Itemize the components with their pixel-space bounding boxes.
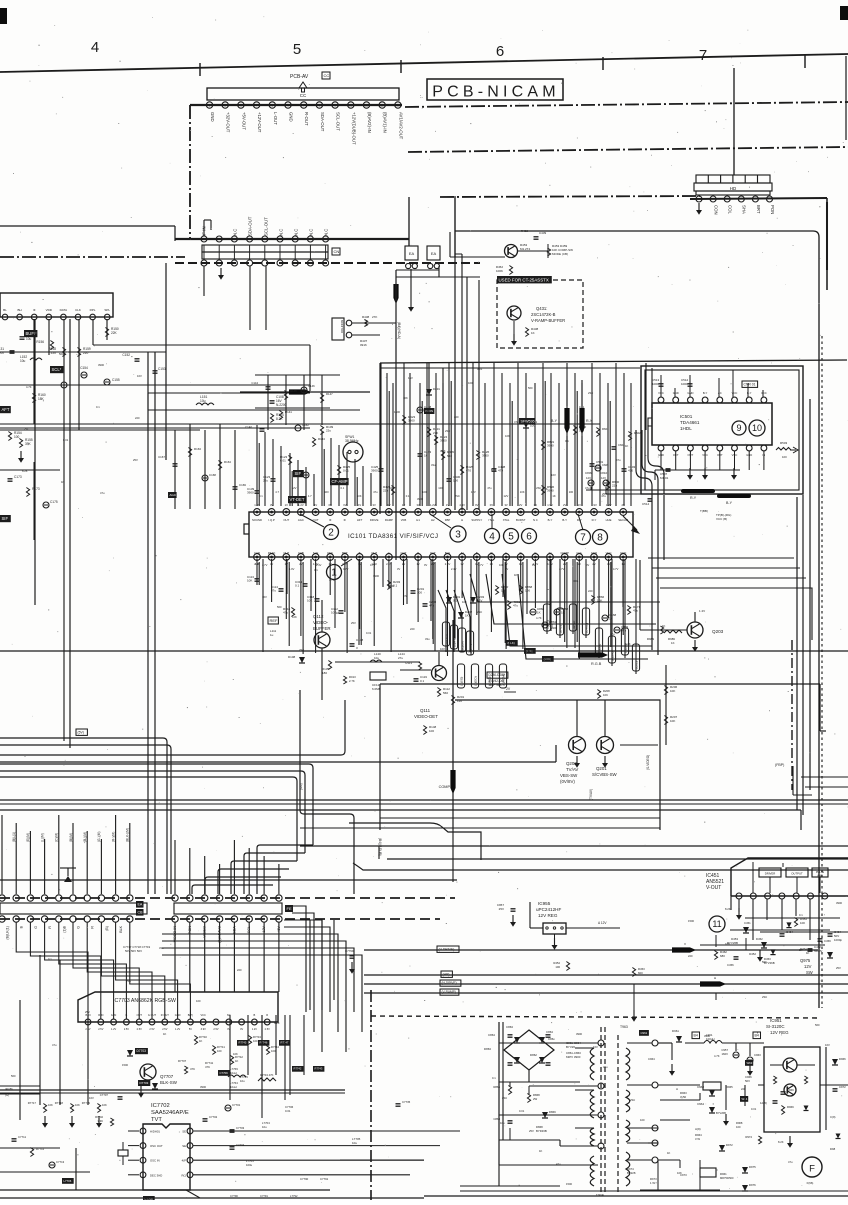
svg-text:1HDL: 1HDL xyxy=(680,426,692,431)
svg-text:220: 220 xyxy=(410,627,415,631)
svg-text:2SC: 2SC xyxy=(24,427,29,431)
wire left v5 xyxy=(33,462,35,540)
winding primary 1 xyxy=(590,1048,594,1080)
tiny value label z0_5 xyxy=(440,647,445,651)
IC501 bottom pin name 2 xyxy=(688,453,694,457)
svg-text:4.7K: 4.7K xyxy=(714,1054,720,1058)
svg-text:BURST: BURST xyxy=(516,518,526,522)
labels q7707 area xyxy=(205,1061,248,1083)
IC101 top pin 4 xyxy=(298,509,305,516)
IC101 bottom pin name R xyxy=(534,551,536,555)
boxlabel BUFF xyxy=(24,330,37,337)
svg-text:OUT: OUT xyxy=(430,551,436,555)
wire V-RAMP xyxy=(364,992,848,994)
tiny label b13 xyxy=(613,567,619,571)
svg-text:R7740: R7740 xyxy=(199,1035,207,1039)
svg-text:1000p: 1000p xyxy=(834,938,842,942)
svg-text:10K: 10K xyxy=(247,579,252,583)
svg-text:SCL*: SCL* xyxy=(52,367,62,372)
IC7703 pin 15 xyxy=(264,1019,270,1031)
net label +12V-OUT xyxy=(257,112,262,133)
IC101 bottom pin name VCC xyxy=(606,551,612,555)
wire IC101 bottom drop x599 xyxy=(598,559,600,590)
svg-text:820: 820 xyxy=(638,971,643,975)
wire IC101 top feed x616 xyxy=(615,363,617,506)
svg-text:A(9): A(9) xyxy=(695,1127,701,1131)
IC101 bottom voltage 11 xyxy=(416,562,419,566)
wire circled1 tail xyxy=(341,559,352,566)
svg-text:C155: C155 xyxy=(112,378,120,382)
svg-text:R163: R163 xyxy=(194,447,201,451)
connector FE row1 pin 6 xyxy=(246,895,252,901)
wire Q112 collector xyxy=(321,600,323,632)
wire IC101 bottom drop x404 xyxy=(403,559,405,605)
capacitor C603 xyxy=(622,465,636,473)
wire IC101 top feed x567 xyxy=(566,363,568,506)
svg-text:220: 220 xyxy=(688,954,693,958)
wire fbp corners xyxy=(793,766,848,795)
net label2 (1)GO) xyxy=(471,664,478,688)
svg-text:47u: 47u xyxy=(788,1160,793,1164)
IC501 bottom pin 6 xyxy=(732,445,738,451)
svg-text:(L)(M): (L)(M) xyxy=(40,833,44,842)
capacitor C861 xyxy=(542,620,557,628)
net label bottom (1)V1/AV2 xyxy=(218,926,222,943)
resistor R160 xyxy=(32,393,45,403)
labels near IC501 bot xyxy=(700,509,731,521)
IC7703 pin 3 xyxy=(111,1019,117,1031)
wire IC101 top feed x443 xyxy=(442,383,444,506)
svg-text:12V REG: 12V REG xyxy=(770,1030,789,1035)
svg-text:R7741: R7741 xyxy=(217,1045,225,1049)
circled 8 xyxy=(593,530,608,545)
transformer left pin y1086 xyxy=(598,1083,604,1089)
wire ic451 outline top xyxy=(730,896,732,910)
IC7702 pin name r0 xyxy=(182,1130,186,1134)
wire IC101 top feed x494 xyxy=(493,363,495,506)
ruler tick xyxy=(400,60,402,73)
connector CC pin 11 xyxy=(363,102,369,108)
IC501 top pin name 1 xyxy=(673,391,679,395)
wire feed x220 xyxy=(219,424,221,509)
svg-text:12V: 12V xyxy=(471,490,476,494)
boxlabel E4B tag xyxy=(524,648,536,654)
svg-text:22u: 22u xyxy=(263,479,268,483)
IC101 bottom pin name COL xyxy=(576,551,582,555)
wire IC101 top feed x355 xyxy=(355,459,357,506)
svg-text:2.5V: 2.5V xyxy=(98,1028,103,1031)
wire v652b xyxy=(651,368,653,424)
svg-text:B-Y: B-Y xyxy=(726,501,733,505)
wire staircase 3 xyxy=(218,869,289,894)
wire right v803 xyxy=(802,495,804,815)
capacitor C868b xyxy=(493,1117,512,1125)
IC7702 pin name l2 xyxy=(150,1159,160,1163)
svg-text:C514: C514 xyxy=(642,502,650,506)
svg-text:FBP: FBP xyxy=(445,518,451,522)
circled 11 xyxy=(709,916,725,932)
IC101 top pin 25 xyxy=(605,509,612,516)
wire IC101 top feed x387 xyxy=(387,373,389,506)
IC101 pin name SUPPLY xyxy=(471,518,482,522)
IC951 parts xyxy=(770,1065,815,1111)
svg-text:3: 3 xyxy=(455,530,461,541)
svg-text:0.1: 0.1 xyxy=(341,486,345,490)
IC101 top voltage 19 xyxy=(534,503,537,507)
tiny value label z4_3 xyxy=(163,1032,166,1036)
circled 5 xyxy=(504,529,519,544)
IC7702 pin name l0 xyxy=(150,1130,160,1134)
connector FE row1 pin 1 xyxy=(172,895,178,901)
wire IC101 top feed x449 xyxy=(449,363,451,506)
connector CC pin 7 xyxy=(301,102,307,108)
net label +12V(DUB)-OUT xyxy=(351,112,356,145)
resistor R861 xyxy=(507,600,520,610)
svg-text:C7701: C7701 xyxy=(232,1103,241,1107)
svg-text:CLK: CLK xyxy=(75,308,81,312)
svg-text:4.7V: 4.7V xyxy=(370,563,376,567)
wire staircase 2 xyxy=(231,861,297,894)
net label GND xyxy=(210,112,215,122)
connector FE row2 pin 7 xyxy=(261,916,267,922)
wire c809 link xyxy=(586,487,656,494)
svg-text:47u: 47u xyxy=(283,611,288,615)
IC7703 pin 14 xyxy=(252,1019,258,1031)
svg-text:VCC: VCC xyxy=(200,1013,206,1017)
connector CN bottom pin 1 xyxy=(201,260,207,266)
wire bottom mid stub xyxy=(340,1159,424,1161)
ruler tick xyxy=(602,57,604,70)
tuner pin VDD xyxy=(46,308,53,320)
net label CON xyxy=(714,205,719,215)
resistor R134 xyxy=(270,413,283,423)
tiny value label z5_7 xyxy=(799,913,803,917)
wire IC101 top feed x381 xyxy=(380,363,382,506)
wire IC101 top feed x518 xyxy=(517,363,519,506)
transformer right pin y1085 xyxy=(652,1082,658,1088)
wire IC101 top feed x436 xyxy=(435,373,437,506)
resistor R164 xyxy=(218,460,231,470)
resistor R155 xyxy=(19,438,32,448)
net label bottom R xyxy=(91,926,95,929)
tiny value label z0_14 xyxy=(388,584,394,588)
IF thick arrow xyxy=(289,389,311,394)
svg-text:CC: CC xyxy=(300,93,307,98)
resistor R866 xyxy=(591,595,604,605)
connector EA2 row1 pin 3 xyxy=(27,895,33,901)
tiny value label z3_4 xyxy=(667,1151,670,1155)
wire IC501 right resistor xyxy=(776,441,798,459)
boxlabel BLK tag xyxy=(506,640,518,646)
bridge labels xyxy=(484,1025,555,1057)
svg-text:C963: C963 xyxy=(754,1053,761,1057)
wire ic451 mesh h3 xyxy=(760,931,848,933)
IC101 bottom pin 14 xyxy=(444,554,451,561)
transformer right pin y1160 xyxy=(652,1157,658,1163)
tiny value label z3_17 xyxy=(788,1160,793,1164)
resistor R7711 xyxy=(30,1147,44,1157)
IC101 bottom pin 22 xyxy=(561,554,568,561)
svg-text:10K: 10K xyxy=(670,689,675,693)
connector CN top pin 2 xyxy=(216,236,222,242)
svg-text:3900: 3900 xyxy=(551,626,557,630)
inductor L151 xyxy=(196,395,214,405)
wire IC101 bottom drop x389 xyxy=(389,559,391,652)
IC7703 pin name B xyxy=(254,1013,256,1017)
svg-text:47u: 47u xyxy=(100,491,105,495)
resistor R860 xyxy=(495,585,508,595)
labels L7705 xyxy=(352,1137,361,1145)
tiny value label z3_0 xyxy=(519,1109,525,1113)
label H-DRIVE xyxy=(440,980,461,986)
IC7703 body xyxy=(78,992,278,1022)
tiny label a1 xyxy=(275,490,279,494)
svg-text:16V: 16V xyxy=(137,374,142,378)
crystal X7701 xyxy=(118,1142,128,1165)
tiny value label z2_2 xyxy=(100,491,105,495)
svg-text:EA: EA xyxy=(138,903,143,907)
resistor R530 xyxy=(573,425,586,435)
wire H-DRIVE xyxy=(364,983,848,985)
capacitor C152 xyxy=(122,353,139,361)
svg-text:AV1/AV2-OUT: AV1/AV2-OUT xyxy=(398,112,403,140)
wire circled4 tail xyxy=(491,514,493,529)
wire 7703 drop 4 xyxy=(303,1015,305,1075)
tiny value label z2_5 xyxy=(61,480,64,484)
svg-text:1K: 1K xyxy=(552,494,555,498)
svg-text:50V 50V 50V: 50V 50V 50V xyxy=(125,949,142,953)
diode D869 xyxy=(542,1110,556,1118)
IC501 top pin 7 xyxy=(746,397,752,403)
tiny label a0 xyxy=(259,494,263,498)
connector HD pin 4 xyxy=(738,196,744,202)
wire R206 v xyxy=(620,665,666,745)
svg-text:1: 1 xyxy=(331,568,337,579)
enclosure big box top xyxy=(455,231,819,1008)
resistor R429 xyxy=(441,450,454,460)
tiny value label z5_4 xyxy=(688,954,693,958)
capacitor C108 xyxy=(270,395,287,407)
tiny value label z3_9 xyxy=(492,1076,496,1080)
svg-text:USED FOR CT-25ASSTX: USED FOR CT-25ASSTX xyxy=(499,277,549,282)
svg-text:VIDEO-: VIDEO- xyxy=(313,620,329,625)
svg-text:38.9MHz: 38.9MHz xyxy=(345,439,359,443)
tiny label b8 xyxy=(478,563,484,567)
svg-text:(C)BK/: (C)BK/ xyxy=(461,641,465,650)
net label +5V-OUT xyxy=(241,112,246,130)
connector EA box xyxy=(427,246,440,269)
IC7703 pin 10 xyxy=(200,1019,206,1031)
IC7702 body xyxy=(143,1124,190,1190)
tiny value label z1_19 xyxy=(616,458,621,462)
tiny label a12 xyxy=(455,494,460,498)
IC7703 pin name B xyxy=(126,1013,128,1017)
net label bottom SDA xyxy=(232,925,236,933)
net label bottom (B)LK(1) xyxy=(6,926,10,940)
capacitor C156 xyxy=(61,382,67,388)
labels misc ps2 xyxy=(740,1075,752,1102)
net label N.C xyxy=(233,229,238,236)
diode D963 xyxy=(697,1085,715,1096)
IC101 bottom pin 5 xyxy=(312,554,319,561)
resistor R868 xyxy=(519,585,532,595)
svg-text:3y50: 3y50 xyxy=(680,1095,687,1099)
wire bus y755 xyxy=(0,700,345,755)
wire IC101 top feed x526 xyxy=(525,373,527,506)
wire tuner drop IF xyxy=(33,319,35,424)
svg-text:1.2V: 1.2V xyxy=(111,1028,116,1031)
transistor Q203 xyxy=(687,622,703,638)
IC7703 pin name OUT xyxy=(136,1013,142,1017)
svg-text:IC951: IC951 xyxy=(770,1018,782,1023)
svg-text:A: A xyxy=(676,1087,678,1091)
svg-text:10u: 10u xyxy=(200,399,206,403)
diode D964 xyxy=(697,1102,726,1115)
wire drop R5 xyxy=(248,848,250,894)
wire left h5 xyxy=(0,469,60,471)
svg-text:3900: 3900 xyxy=(836,901,842,905)
connector CN bottom pin 7 xyxy=(292,260,298,266)
svg-text:47K: 47K xyxy=(205,1065,210,1069)
wire box top link xyxy=(454,196,456,257)
IC101 pin name AGC xyxy=(298,518,304,522)
svg-text:T963: T963 xyxy=(620,1025,628,1029)
IC451 pin 1 xyxy=(736,893,742,899)
IC501 bottom pin name 1 xyxy=(673,453,679,457)
svg-text:47K: 47K xyxy=(190,1067,195,1071)
IC101 bottom pin name DEF xyxy=(327,551,333,555)
IC101 top voltage 0 xyxy=(254,503,260,507)
IC101 bottom pin 15 xyxy=(459,554,466,561)
connector FE row1 pin 5 xyxy=(231,895,237,901)
wire FE drop 3 xyxy=(219,922,221,992)
svg-text:Q203: Q203 xyxy=(712,629,724,634)
svg-text:1K: 1K xyxy=(163,1032,166,1036)
resistor R141 xyxy=(279,410,292,420)
wire route y624 xyxy=(486,574,656,624)
wire left v c xyxy=(59,960,61,1105)
tiny value label z1_6 xyxy=(625,444,628,448)
connector CN top pin 3 xyxy=(231,236,237,242)
tiny label a7 xyxy=(373,490,378,494)
tiny value label z5_6 xyxy=(762,960,767,964)
svg-text:1500: 1500 xyxy=(388,584,394,588)
wire q975 drop xyxy=(631,984,716,1022)
IC101 pin name HFT xyxy=(357,518,363,522)
wire top long y368 xyxy=(380,367,640,369)
wire tuner h4 xyxy=(0,429,200,431)
svg-text:1K: 1K xyxy=(514,573,517,577)
svg-text:PCB-NICAM: PCB-NICAM xyxy=(432,84,560,101)
svg-text:EA: EA xyxy=(431,251,437,256)
svg-text:4: 4 xyxy=(489,532,495,543)
svg-text:4(P: 4(P xyxy=(182,1159,186,1163)
IC7703 pin 4 xyxy=(124,1019,130,1031)
connector CC pin 2 xyxy=(222,102,228,108)
svg-text:C454: C454 xyxy=(786,930,793,934)
svg-text:1V: 1V xyxy=(358,503,361,507)
wire IC101 top feed x510 xyxy=(510,383,512,506)
wire IC101 top feed x559 xyxy=(558,383,560,506)
wire riser 479 xyxy=(478,280,480,510)
wire monitor 2 xyxy=(352,335,380,347)
svg-text:BLK: BLK xyxy=(445,551,450,555)
svg-text:100: 100 xyxy=(525,589,530,593)
IC101 bottom voltage 3 xyxy=(299,562,302,566)
svg-text:D972: D972 xyxy=(726,1143,733,1147)
net label L-OUT xyxy=(273,112,278,125)
wire mid h588 xyxy=(660,588,812,640)
wire IC101 top feed x257 xyxy=(257,425,259,506)
net label SCL-OUT xyxy=(336,112,341,131)
IC7703 label xyxy=(113,998,176,1004)
label 2V xyxy=(504,687,516,692)
svg-text:R961: R961 xyxy=(720,1172,727,1176)
svg-text:2.7K: 2.7K xyxy=(349,679,355,683)
svg-text:BL: BL xyxy=(3,308,7,312)
svg-text:100: 100 xyxy=(640,1118,645,1122)
IC101 bottom voltage 13 xyxy=(445,562,451,566)
filter CF111 xyxy=(370,672,386,691)
resistor R426 xyxy=(476,450,489,460)
svg-text:0.1: 0.1 xyxy=(48,957,52,961)
wire drop L7 xyxy=(100,839,102,894)
wire feed x235 xyxy=(234,430,236,509)
wire encl a xyxy=(455,700,660,830)
svg-text:10K: 10K xyxy=(670,719,675,723)
winding primary 4 xyxy=(590,1156,594,1186)
svg-text:12V: 12V xyxy=(504,494,509,498)
svg-text:16V: 16V xyxy=(440,647,445,651)
IC101 top pin 3 xyxy=(283,509,290,516)
svg-text:(B4)(HD-A): (B4)(HD-A) xyxy=(397,322,401,339)
capacitor C501 xyxy=(590,460,604,468)
IC101 top voltage 4 xyxy=(314,503,317,507)
net label bottom R xyxy=(48,926,52,929)
svg-text:100: 100 xyxy=(468,381,473,385)
svg-text:2SC: 2SC xyxy=(455,494,460,498)
capacitor C7713 xyxy=(49,1160,65,1168)
svg-text:100: 100 xyxy=(255,562,260,566)
svg-text:VBS-SW: VBS-SW xyxy=(560,773,578,778)
label I201 xyxy=(299,783,303,790)
tiny label a5 xyxy=(341,486,345,490)
svg-text:SDA-OUT: SDA-OUT xyxy=(320,112,325,132)
tiny value label z0_11 xyxy=(277,605,282,609)
svg-text:L-OUT: L-OUT xyxy=(273,112,278,125)
wire circled2 tail xyxy=(300,514,324,527)
svg-text:6.0MB: 6.0MB xyxy=(372,687,381,691)
svg-text:R7743: R7743 xyxy=(253,1035,261,1039)
svg-text:33u: 33u xyxy=(603,1065,608,1069)
corner mark left xyxy=(0,8,7,24)
svg-text:0.1: 0.1 xyxy=(314,568,318,572)
svg-text:C7707: C7707 xyxy=(100,1093,109,1097)
svg-text:10u: 10u xyxy=(374,656,379,660)
svg-text:100: 100 xyxy=(462,600,467,604)
svg-text:10u: 10u xyxy=(26,337,32,341)
svg-text:2.5V: 2.5V xyxy=(149,1028,154,1031)
tiny label b4 xyxy=(370,563,376,567)
boxlabel 5V xyxy=(76,729,87,735)
svg-text:2SC: 2SC xyxy=(588,391,593,395)
svg-text:SE: SE xyxy=(182,1144,186,1148)
svg-text:RAMP: RAMP xyxy=(385,518,393,522)
svg-text:560: 560 xyxy=(11,1074,16,1078)
IC101 bottom voltage 5 xyxy=(329,562,332,566)
net label R-OUT xyxy=(304,112,309,126)
IC101 bottom pin name IN xyxy=(549,551,552,555)
